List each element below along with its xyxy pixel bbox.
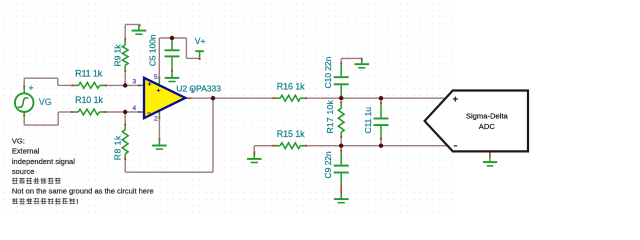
resistor R16 xyxy=(272,95,307,101)
svg-text:C11 1u: C11 1u xyxy=(363,107,373,134)
resistor R17 xyxy=(338,101,344,146)
wire node B to pin4 xyxy=(125,111,138,113)
wire R10 to node B xyxy=(107,111,126,113)
ground G1 (R9 top) xyxy=(138,25,140,31)
ground G3 (pin2) xyxy=(158,140,160,146)
annotation chinese line 1 xyxy=(12,178,61,184)
node D junction xyxy=(339,96,343,100)
svg-text:+: + xyxy=(453,94,459,105)
svg-text:R11 1k: R11 1k xyxy=(75,69,103,79)
svg-text:Sigma-Delta: Sigma-Delta xyxy=(466,111,509,120)
op-amp U2 xyxy=(138,77,191,120)
wire node A to pin3 xyxy=(125,84,138,86)
ADC block U3 xyxy=(425,91,528,152)
V+ terminal xyxy=(195,51,204,60)
svg-text:!: ! xyxy=(76,197,78,206)
svg-text:+: + xyxy=(28,83,34,94)
svg-text:U2 OPA333: U2 OPA333 xyxy=(176,84,221,94)
node A junction xyxy=(123,83,127,87)
svg-text:External: External xyxy=(12,147,40,156)
node E junction xyxy=(379,96,383,100)
ground G2 (C5) xyxy=(171,72,173,78)
wire pin5 to V+ rail xyxy=(159,38,199,77)
svg-text:C9 22n: C9 22n xyxy=(323,151,333,178)
svg-text:3: 3 xyxy=(132,78,136,85)
capacitor C10 xyxy=(334,63,349,98)
resistor R10 xyxy=(71,109,107,115)
wire R9 top xyxy=(125,25,140,39)
svg-text:independent signal: independent signal xyxy=(12,157,75,166)
capacitor C5 xyxy=(165,38,180,72)
wire VG-bottom to R10 xyxy=(24,112,71,125)
svg-text:R9 1k: R9 1k xyxy=(112,44,122,67)
resistor R15 xyxy=(272,143,307,149)
resistor R11 xyxy=(71,83,107,89)
node B junction xyxy=(123,110,127,114)
wire R16 to node D xyxy=(307,97,341,99)
wire R15 left xyxy=(254,146,272,156)
wire node F to node G xyxy=(341,145,381,147)
svg-text:source: source xyxy=(12,167,35,176)
svg-text:C10 22n: C10 22n xyxy=(323,56,333,88)
capacitor C9 xyxy=(334,146,349,194)
svg-text:C5 100n: C5 100n xyxy=(147,34,157,66)
node C5 junction xyxy=(170,36,174,40)
wire C10 top xyxy=(341,58,362,63)
svg-text:VG: VG xyxy=(39,97,52,107)
node F junction xyxy=(339,144,343,148)
wire pin2 to ground xyxy=(158,119,160,140)
output junction xyxy=(211,96,215,100)
svg-text:V+: V+ xyxy=(195,36,206,46)
wire feedback xyxy=(125,98,213,172)
wire R11 to node A xyxy=(107,84,125,86)
wire node D to node E xyxy=(341,97,381,99)
wire node E to ADC+ xyxy=(381,97,446,99)
ADC ground pin xyxy=(489,152,491,162)
ground G6 (C9) xyxy=(340,194,342,200)
voltage source VG xyxy=(15,78,34,125)
wire output xyxy=(191,97,272,99)
ground G4 (C10) xyxy=(361,59,363,65)
wire VG-top to R11 xyxy=(24,78,71,85)
svg-text:ADC: ADC xyxy=(479,122,496,131)
resistor R9 xyxy=(122,38,128,85)
annotation chinese line 2 xyxy=(12,198,75,204)
svg-text:R15 1k: R15 1k xyxy=(277,129,305,139)
ground G7 (ADC) xyxy=(483,162,497,166)
svg-text:R17 10k: R17 10k xyxy=(325,100,335,134)
svg-text:R10 1k: R10 1k xyxy=(75,95,103,105)
svg-text:5: 5 xyxy=(154,74,158,81)
svg-text:2: 2 xyxy=(154,115,158,122)
svg-text:R16 1k: R16 1k xyxy=(277,82,305,92)
capacitor C11 xyxy=(374,98,389,146)
svg-text:VG:: VG: xyxy=(12,136,25,145)
wire R15 to node F xyxy=(307,145,341,147)
svg-text:1: 1 xyxy=(191,88,195,95)
ground G5 (R15) xyxy=(253,153,255,159)
svg-text:Not on the same ground as the: Not on the same ground as the circuit he… xyxy=(12,186,154,195)
node G junction xyxy=(379,144,383,148)
svg-text:4: 4 xyxy=(132,105,136,112)
wire node G to ADC- xyxy=(381,145,448,147)
svg-text:R8 1k: R8 1k xyxy=(112,135,122,160)
resistor R8 xyxy=(122,112,128,172)
